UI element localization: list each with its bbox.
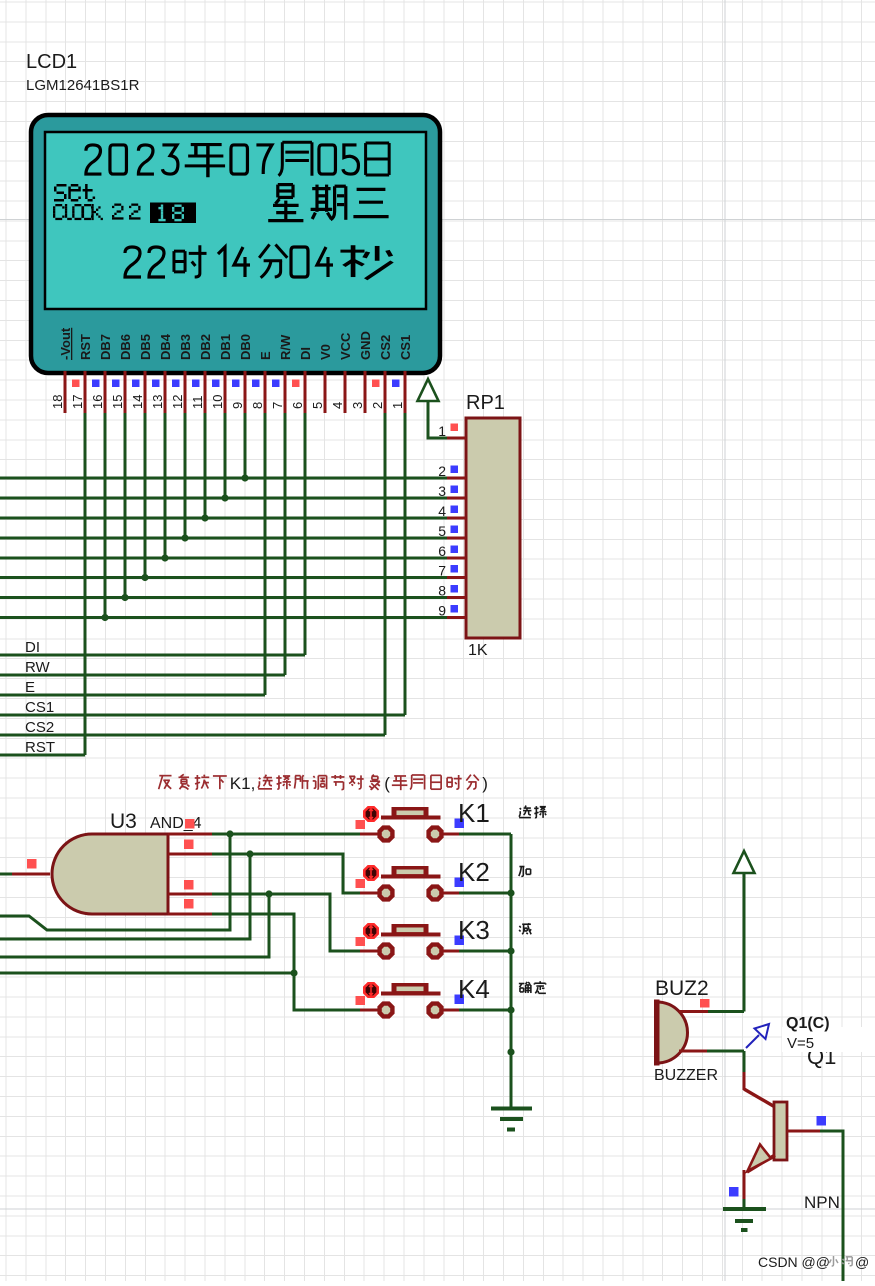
svg-text:9: 9 bbox=[438, 603, 446, 619]
LCD pins bbox=[403, 371, 406, 413]
svg-text:DB6: DB6 bbox=[118, 334, 133, 360]
svg-text:3: 3 bbox=[438, 483, 446, 499]
svg-text:NPN: NPN bbox=[804, 1193, 840, 1212]
control pin vertical wires bbox=[84, 413, 87, 755]
U3 red squares bbox=[27, 859, 37, 869]
svg-text:RP1: RP1 bbox=[466, 392, 505, 414]
svg-text:13: 13 bbox=[150, 395, 165, 409]
ground (buttons) bbox=[491, 1109, 532, 1130]
and gate U3 body bbox=[52, 834, 168, 914]
LCD pin state squares bbox=[72, 380, 80, 388]
svg-text:3: 3 bbox=[350, 402, 365, 409]
button K3 bbox=[459, 950, 511, 953]
svg-text:DB2: DB2 bbox=[198, 334, 213, 360]
ground (transistor) bbox=[743, 1199, 746, 1209]
net stub wires DI RW E CS1 CS2 RST bbox=[0, 654, 305, 657]
svg-text:K2: K2 bbox=[458, 857, 490, 887]
button K1 bbox=[459, 833, 511, 836]
LCD1 screen bbox=[45, 132, 426, 309]
svg-text:4: 4 bbox=[438, 503, 446, 519]
svg-text:7: 7 bbox=[270, 402, 285, 409]
svg-text:K4: K4 bbox=[458, 974, 490, 1004]
svg-text:DI: DI bbox=[298, 347, 313, 360]
LCD text 星期三 bbox=[268, 185, 303, 221]
svg-text:1: 1 bbox=[390, 402, 405, 409]
bus horizontal wires to RP1 bbox=[0, 477, 447, 480]
svg-text:DB5: DB5 bbox=[138, 334, 153, 360]
svg-text:8: 8 bbox=[250, 402, 265, 409]
svg-text:DB3: DB3 bbox=[178, 334, 193, 360]
RP1 pins 2-9 bbox=[447, 476, 466, 479]
svg-text:RST: RST bbox=[78, 334, 93, 360]
svg-text:9: 9 bbox=[230, 402, 245, 409]
RP1 pin 1 wire + power arrow bbox=[428, 389, 447, 438]
wires gate inputs to buttons bbox=[212, 833, 360, 836]
LCD text set/clock bbox=[57, 184, 67, 187]
svg-text:-Vout: -Vout bbox=[58, 327, 73, 360]
svg-text:RW: RW bbox=[25, 659, 51, 676]
U3 output wire bbox=[0, 873, 12, 876]
svg-text:R/W: R/W bbox=[278, 334, 293, 360]
svg-text:CS2: CS2 bbox=[25, 719, 54, 736]
LCD text line1 bbox=[86, 145, 102, 174]
svg-text:1: 1 bbox=[438, 423, 446, 439]
svg-text:17: 17 bbox=[70, 395, 85, 409]
wire buzzer to Q1 collector bbox=[743, 1051, 746, 1072]
svg-text:DB4: DB4 bbox=[158, 333, 173, 360]
svg-text:LCD1: LCD1 bbox=[26, 51, 77, 73]
svg-text:BUZ2: BUZ2 bbox=[655, 977, 709, 1000]
svg-text:4: 4 bbox=[330, 402, 345, 409]
svg-text:8: 8 bbox=[438, 583, 446, 599]
button K4 bbox=[459, 1009, 511, 1012]
svg-text:15: 15 bbox=[110, 395, 125, 409]
LCD data pin vertical wires (staircase) bbox=[104, 413, 107, 618]
svg-text:1K: 1K bbox=[468, 642, 488, 659]
red hint text bbox=[159, 776, 172, 790]
svg-text:Q1(C): Q1(C) bbox=[786, 1015, 830, 1032]
svg-text:K1: K1 bbox=[458, 798, 490, 828]
svg-text:E: E bbox=[258, 351, 273, 360]
svg-text:RST: RST bbox=[25, 739, 55, 756]
svg-text:U3: U3 bbox=[110, 810, 137, 833]
svg-text:6: 6 bbox=[438, 543, 446, 559]
svg-text:K1,: K1, bbox=[230, 774, 256, 793]
svg-text:K3: K3 bbox=[458, 915, 490, 945]
svg-text:VCC: VCC bbox=[338, 332, 353, 360]
svg-text:(: ( bbox=[384, 774, 390, 793]
svg-text:5: 5 bbox=[310, 402, 325, 409]
svg-text:DB7: DB7 bbox=[98, 334, 113, 360]
svg-text:18: 18 bbox=[50, 395, 65, 409]
svg-text:CS1: CS1 bbox=[25, 699, 54, 716]
buzzer BUZ2 body bbox=[657, 1002, 688, 1063]
svg-text:12: 12 bbox=[170, 395, 185, 409]
buzzer pins bbox=[679, 1010, 708, 1013]
button K2 bbox=[459, 892, 511, 895]
base wire bbox=[787, 1129, 820, 1132]
svg-text:V=5: V=5 bbox=[787, 1035, 814, 1052]
svg-text:GND: GND bbox=[358, 331, 373, 360]
svg-text:@: @ bbox=[855, 1254, 869, 1270]
svg-text:2: 2 bbox=[438, 463, 446, 479]
svg-text:16: 16 bbox=[90, 395, 105, 409]
svg-text:V0: V0 bbox=[318, 344, 333, 360]
svg-text:CS2: CS2 bbox=[378, 335, 393, 360]
svg-text:5: 5 bbox=[438, 523, 446, 539]
svg-text:7: 7 bbox=[438, 563, 446, 579]
power arrow (buzzer) bbox=[743, 866, 746, 1012]
svg-text:DI: DI bbox=[25, 639, 40, 656]
svg-text:): ) bbox=[482, 774, 488, 793]
button common ground bus bbox=[510, 834, 513, 1109]
svg-text:11: 11 bbox=[190, 396, 205, 410]
transistor Q1 bbox=[742, 1072, 745, 1090]
svg-text:BUZZER: BUZZER bbox=[654, 1067, 718, 1084]
svg-text:CSDN @@: CSDN @@ bbox=[758, 1254, 830, 1270]
LCD text line3 bbox=[125, 247, 141, 277]
svg-text:DB0: DB0 bbox=[238, 334, 253, 360]
svg-text:14: 14 bbox=[130, 395, 145, 409]
U3 input stubs bbox=[168, 832, 212, 835]
svg-text:DB1: DB1 bbox=[218, 334, 233, 360]
junction dots bbox=[226, 830, 233, 837]
wires to MCU (left) bbox=[0, 834, 230, 930]
svg-text:LGM12641BS1R: LGM12641BS1R bbox=[26, 77, 140, 94]
svg-text:2: 2 bbox=[370, 402, 385, 409]
LCD1 body bbox=[31, 115, 440, 373]
svg-text:6: 6 bbox=[290, 402, 305, 409]
svg-text:CS1: CS1 bbox=[398, 335, 413, 360]
svg-text:E: E bbox=[25, 679, 35, 696]
svg-text:10: 10 bbox=[210, 395, 225, 409]
